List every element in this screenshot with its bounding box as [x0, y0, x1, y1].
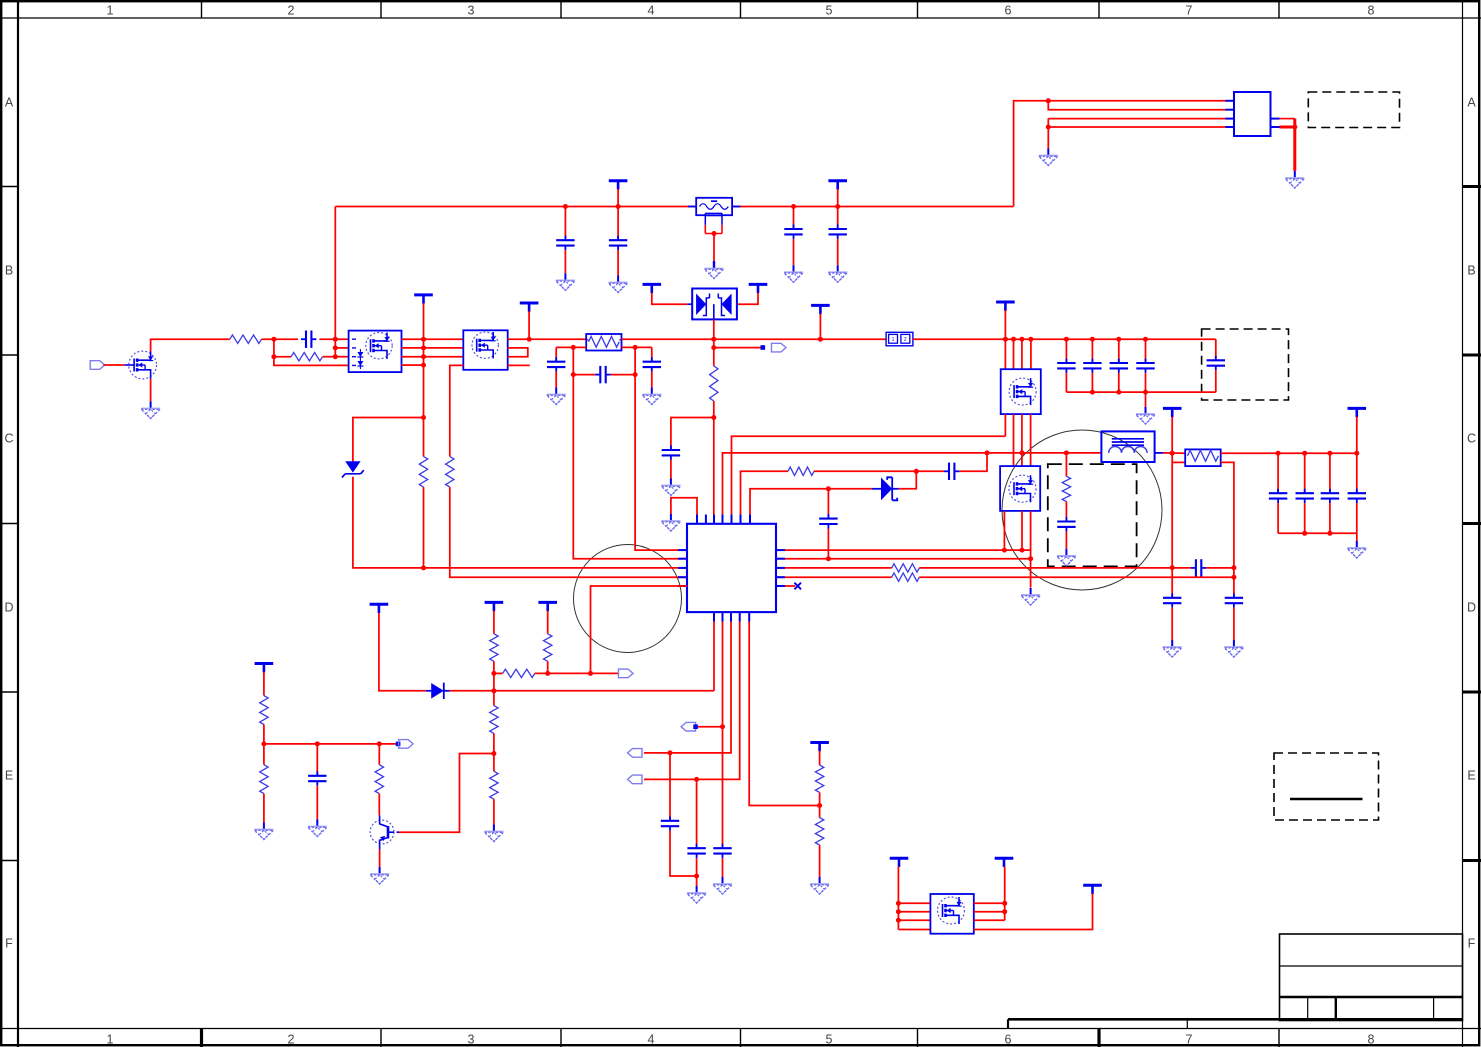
resistor R15 — [260, 696, 268, 725]
capacitor C12 — [819, 514, 837, 528]
wire row — [264, 743, 399, 745]
connector U2 — [1234, 92, 1271, 136]
power bar VT1 — [643, 284, 662, 293]
ground — [1039, 149, 1058, 166]
power bar V8 — [1348, 408, 1367, 417]
title block — [1280, 934, 1463, 1021]
wire to ground — [713, 234, 715, 262]
mosfet in Q3 — [366, 333, 392, 359]
mosfet block Q6 — [1000, 466, 1040, 511]
capacitor C22 — [547, 357, 565, 371]
wire into dashed box — [1215, 339, 1217, 360]
port VS — [772, 343, 787, 352]
wire — [1171, 608, 1173, 640]
capacitor — [1110, 359, 1128, 373]
ground — [661, 514, 680, 531]
wire — [974, 902, 1005, 904]
svg-text:3: 3 — [468, 4, 475, 18]
ground — [1285, 171, 1304, 188]
power bar VIN1 — [609, 181, 628, 190]
wire V8 down — [1356, 417, 1358, 454]
capacitor C1 — [556, 236, 574, 250]
wire rail A to IC — [573, 347, 687, 558]
wire cap — [1091, 339, 1093, 362]
svg-text:F: F — [1468, 937, 1476, 951]
wire IC pinB3 — [644, 622, 731, 753]
wire — [263, 794, 265, 823]
wire — [827, 529, 829, 559]
resistor R17 — [375, 765, 383, 794]
mosfet in Q6 — [1009, 475, 1036, 502]
resistor R14 — [490, 771, 498, 799]
wire vcc sense — [713, 339, 715, 366]
sheet border line — [1008, 1018, 1463, 1021]
capacitor — [1083, 359, 1101, 373]
wire zener branch — [353, 418, 424, 462]
wire block3 pin — [1030, 339, 1032, 369]
ground — [1021, 588, 1040, 605]
wire C4 — [837, 207, 839, 229]
resistor R10 — [490, 634, 498, 662]
wire IC pinB2 — [722, 622, 724, 848]
wire IC fb3 — [776, 576, 892, 578]
wire — [819, 792, 821, 817]
wire — [274, 356, 291, 358]
ground — [1347, 541, 1366, 558]
ground — [141, 402, 160, 419]
svg-text:A: A — [1467, 96, 1476, 110]
dashed box B — [1202, 329, 1289, 400]
wire — [696, 779, 698, 847]
wire cap — [1118, 339, 1120, 362]
schottky diode D2 — [872, 488, 881, 490]
wire snub — [1065, 453, 1067, 476]
power bar V5 — [811, 305, 830, 314]
capacitor C28 — [308, 771, 326, 785]
power bar V14 — [890, 858, 909, 867]
wire Q4 source — [450, 365, 464, 456]
dashed box C — [1048, 464, 1137, 566]
ground — [784, 265, 803, 282]
wire cap — [1277, 453, 1279, 493]
port ADJ — [399, 740, 414, 749]
wire Q2 base — [397, 754, 494, 833]
mosfet block Q5 — [1001, 369, 1041, 414]
wire — [1206, 567, 1234, 569]
wire C23 — [651, 347, 653, 361]
label line in dashed box D — [1290, 798, 1363, 801]
wire IC gnd — [671, 498, 697, 515]
svg-text:D: D — [1467, 601, 1476, 615]
svg-text:8: 8 — [1368, 4, 1375, 18]
wire — [1065, 502, 1067, 522]
capacitor C5 — [301, 331, 316, 348]
power bar V6 — [996, 302, 1015, 311]
svg-text:7: 7 — [1186, 4, 1193, 18]
svg-text:4: 4 — [648, 4, 655, 18]
wire RB2 pinBL — [1172, 461, 1185, 463]
wire block3-4 — [1021, 414, 1023, 466]
capacitor C19 — [1057, 517, 1075, 531]
wire — [316, 786, 318, 820]
resistor R8 — [892, 573, 920, 581]
wire to cap bank — [1221, 452, 1357, 454]
wire — [974, 919, 1005, 921]
capacitor C13 — [1163, 593, 1181, 607]
wire Q4 jumper — [508, 348, 528, 357]
svg-text:B: B — [5, 264, 13, 278]
wire IC switch rail — [723, 453, 1102, 515]
svg-text:E: E — [1467, 769, 1475, 783]
wire — [547, 661, 549, 673]
wire — [402, 338, 464, 340]
wire net1 top — [1014, 101, 1226, 207]
wire cap — [1145, 339, 1147, 362]
capacitor — [1321, 489, 1339, 503]
wire — [262, 338, 299, 340]
wire Q6 pin — [1003, 511, 1005, 550]
wire pin2 — [1048, 101, 1225, 110]
wire rail to caps — [913, 338, 1216, 340]
wire — [402, 347, 464, 349]
wire — [493, 799, 495, 824]
wire IC pinB4 — [644, 622, 740, 780]
svg-text:5: 5 — [826, 1033, 833, 1047]
wire top rail — [335, 206, 696, 208]
zener diode D1 — [345, 461, 360, 472]
power bar V10 — [485, 602, 504, 611]
wire nc — [776, 585, 795, 587]
mosfet in Q5 — [1009, 378, 1036, 405]
svg-text:E: E — [5, 769, 13, 783]
mosfet block Q4 — [463, 330, 507, 370]
wire rail B to IC — [635, 347, 687, 550]
svg-text:C: C — [1467, 432, 1476, 446]
ground — [704, 262, 723, 279]
svg-text:8: 8 — [1368, 1033, 1375, 1047]
wire block3 pin — [1004, 339, 1006, 369]
wire V7 down — [1171, 417, 1173, 568]
fuse F1 — [696, 198, 732, 215]
capacitor C20 — [1191, 559, 1206, 576]
dashed box D — [1274, 753, 1379, 820]
wire to IC pinL5 — [591, 586, 688, 673]
capacitor C14 — [1225, 593, 1243, 607]
ground — [1136, 407, 1155, 424]
wire left rail — [334, 207, 336, 357]
wire cap — [1356, 453, 1358, 493]
wire TVS to rail — [713, 319, 715, 339]
mosfet in Q7 — [938, 897, 965, 924]
power bar V12 — [255, 664, 274, 673]
wire — [897, 867, 899, 930]
mosfet in Q4 — [472, 332, 498, 358]
resistor R16 — [260, 765, 268, 794]
wire IC out2 — [776, 558, 1031, 560]
resistor — [589, 336, 620, 347]
resistor R13 — [490, 706, 498, 734]
capacitor — [1057, 359, 1075, 373]
wire block1 pin2 — [335, 347, 348, 349]
wire Q1 drain — [151, 339, 230, 351]
wire — [1163, 452, 1185, 454]
svg-text:1: 1 — [107, 4, 114, 18]
svg-text:C: C — [4, 432, 13, 446]
wire block5 pin — [898, 929, 930, 931]
svg-text:1: 1 — [892, 337, 895, 343]
wire IC pinB1 — [713, 622, 715, 691]
svg-text:2: 2 — [904, 337, 907, 343]
wire RB1 pinBR — [622, 346, 652, 348]
mosfet block Q7 — [930, 894, 973, 934]
wire — [493, 754, 495, 772]
port PB2 — [681, 722, 696, 731]
zener pair in Q3 — [357, 349, 363, 369]
diode D3 — [431, 683, 444, 699]
power bar V7 — [1163, 408, 1182, 417]
wire cap return — [1066, 391, 1215, 393]
wire to IC — [353, 477, 687, 568]
wire — [713, 401, 715, 515]
wire cap — [1065, 339, 1067, 362]
power bar V15 — [995, 858, 1014, 867]
ground — [547, 388, 566, 405]
wire — [1171, 568, 1173, 598]
wire TVS right — [737, 293, 758, 304]
wire — [378, 744, 380, 765]
wire — [494, 672, 503, 674]
wire block5 pin — [898, 919, 930, 921]
wire — [919, 567, 1191, 569]
resistor R9 — [710, 366, 718, 401]
port PB3 — [628, 749, 643, 758]
wire IC boot — [750, 489, 872, 515]
wire — [263, 725, 265, 744]
wire block5 pin — [898, 902, 930, 904]
wire — [493, 733, 495, 753]
resistor R1 — [230, 335, 262, 343]
resistor R5 — [788, 467, 814, 475]
wire pin4 — [1048, 126, 1225, 128]
ground — [1057, 549, 1076, 566]
fuse holder — [705, 212, 722, 214]
resistor R7 — [892, 564, 920, 572]
wire C2 — [617, 207, 619, 240]
wire block5 pin — [898, 911, 930, 913]
wire — [263, 744, 265, 765]
wire top rail cont — [732, 206, 1014, 208]
wire — [402, 356, 464, 358]
wire cap — [1329, 453, 1331, 493]
resistor R18 — [815, 765, 823, 792]
wire — [959, 453, 987, 471]
ground — [1224, 640, 1243, 657]
wire — [696, 858, 698, 886]
wire to ground — [1047, 119, 1049, 149]
ground — [484, 825, 503, 842]
wire — [919, 576, 1234, 578]
wire — [508, 338, 587, 340]
capacitor C21 — [595, 366, 610, 383]
wire main rail — [622, 338, 887, 340]
wire RB2 pinBR down — [1221, 462, 1234, 597]
svg-text:D: D — [4, 601, 13, 615]
svg-text:6: 6 — [1005, 1033, 1012, 1047]
svg-text:5: 5 — [826, 4, 833, 18]
svg-text:6: 6 — [1005, 4, 1012, 18]
wire U2 out down — [1293, 119, 1296, 171]
wire block3 pin — [1021, 339, 1023, 369]
wire Q2 emitter — [379, 850, 381, 868]
wire — [814, 470, 944, 472]
wire block3-4 — [1030, 414, 1032, 466]
capacitor C25 — [713, 844, 731, 858]
wire IC out1 — [776, 549, 1031, 551]
wire cap return — [1278, 532, 1357, 534]
svg-text:2: 2 — [288, 4, 295, 18]
ground — [1163, 640, 1182, 657]
resistor R11 — [544, 634, 552, 662]
wire — [670, 831, 697, 876]
ground — [810, 877, 829, 894]
power bar V13 — [810, 743, 829, 752]
wire — [1215, 370, 1217, 392]
wire TVS left — [652, 293, 687, 304]
highlight circle left — [574, 545, 682, 653]
ground — [828, 265, 847, 282]
inductor L1 (shielded) — [1101, 431, 1154, 462]
wire Q6 source to gnd — [1030, 511, 1032, 588]
power bar V3 — [520, 303, 539, 312]
ground — [661, 479, 680, 496]
wire Q1 source — [150, 379, 152, 402]
mosfet block Q3 — [349, 331, 402, 373]
transistor Q2 — [370, 820, 394, 844]
svg-text:7: 7 — [1186, 1033, 1193, 1047]
wire drain rail — [423, 303, 425, 456]
wire — [669, 753, 671, 821]
capacitor C26 — [661, 816, 679, 830]
no-connect X — [794, 583, 801, 590]
resistor R3 — [419, 457, 427, 488]
wire — [423, 487, 425, 568]
dashed box A — [1308, 92, 1399, 128]
wire stub — [508, 364, 530, 366]
power bar V4 — [414, 295, 433, 304]
svg-text:3: 3 — [468, 1033, 475, 1047]
wire block5 out — [974, 894, 1093, 930]
wire — [1065, 531, 1067, 548]
ground — [556, 273, 575, 290]
power bar VIN2 — [828, 181, 847, 190]
wire C3 — [793, 207, 795, 229]
wire C28 — [316, 744, 318, 776]
resistor RB2 (boxed) — [1185, 449, 1221, 466]
wire IC pinB5 — [749, 622, 819, 806]
wire — [450, 690, 715, 692]
capacitor C24 — [662, 446, 680, 460]
ground — [687, 886, 706, 903]
wire pin3 — [1048, 118, 1225, 120]
capacitor — [1136, 359, 1154, 373]
svg-text:B: B — [1467, 264, 1475, 278]
wire to ground — [1145, 392, 1147, 407]
resistor — [1188, 450, 1219, 461]
port PB4 — [628, 775, 643, 784]
wire — [493, 661, 495, 705]
capacitor — [1348, 489, 1366, 503]
resistor RB1 (boxed) — [586, 334, 621, 351]
wire — [722, 858, 724, 877]
wire to port — [714, 347, 764, 349]
wire — [670, 460, 672, 479]
wire IC fb — [741, 471, 789, 514]
resistor R2 — [291, 353, 322, 361]
wire — [319, 338, 348, 340]
wire — [899, 471, 917, 489]
wire C12 — [827, 489, 829, 518]
ground — [713, 877, 732, 894]
wire block1 pin4 — [274, 339, 349, 365]
wire Q2 collector — [378, 794, 380, 816]
wire block3 out — [1004, 414, 1006, 436]
wire cap — [1304, 453, 1306, 493]
wire — [698, 726, 723, 728]
resistor R12 — [503, 669, 535, 677]
svg-text:1: 1 — [107, 1033, 114, 1047]
wire U2 out — [1280, 118, 1295, 120]
power bar V11 — [538, 602, 557, 611]
IC U1 — [687, 524, 776, 612]
wire — [1233, 608, 1235, 640]
capacitor C6 — [1207, 356, 1225, 370]
TVS diode D4 — [692, 289, 737, 320]
wire from V9 — [379, 613, 426, 691]
capacitor C2 — [609, 236, 627, 250]
capacitor — [1296, 489, 1314, 503]
resistor R6 — [1062, 476, 1070, 501]
wire — [974, 911, 1005, 913]
capacitor — [1269, 489, 1287, 503]
wire RB1 pinBL — [556, 346, 586, 348]
wire IC fb2 — [776, 567, 892, 569]
port IN — [90, 361, 105, 370]
wire — [535, 672, 619, 674]
wire — [573, 374, 595, 376]
wire block1 pin3 — [335, 356, 348, 358]
jumper J1 1-2 — [886, 332, 913, 346]
resistor R4 — [446, 457, 454, 488]
svg-text:A: A — [5, 96, 14, 110]
wire to IC — [450, 487, 687, 577]
resistor R19 — [815, 818, 823, 845]
capacitor C27 — [687, 844, 705, 858]
capacitor C11 — [944, 463, 959, 480]
wire to Q1 gate — [103, 364, 124, 366]
wire — [1004, 867, 1006, 921]
ground — [308, 820, 327, 837]
wire C22 — [555, 347, 557, 361]
ground — [370, 867, 389, 884]
port INT — [619, 669, 634, 678]
wire U2 out2 — [1280, 126, 1295, 129]
ground — [254, 823, 273, 840]
svg-text:F: F — [5, 937, 13, 951]
highlight circle right — [1002, 430, 1162, 590]
ground — [609, 276, 628, 293]
power bar V9 — [370, 604, 389, 613]
wire block3-4 — [1013, 414, 1015, 466]
